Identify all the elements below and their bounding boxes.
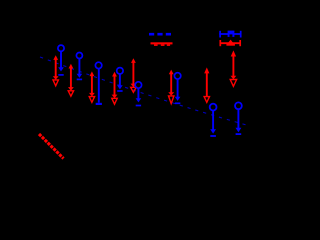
red limit arrow R6 <box>168 70 174 104</box>
blue limit arrow B3 <box>95 62 102 104</box>
legend blue dashed line <box>149 33 171 36</box>
red dotted diagonal curve <box>39 134 64 159</box>
blue data point with horizontal error bar <box>219 31 241 38</box>
red data point with horizontal error bar <box>220 40 242 47</box>
blue limit arrow B6 <box>174 73 180 104</box>
red lower-limit arrow R7 (up) <box>204 67 209 102</box>
red limit arrow R5 <box>131 58 137 92</box>
red limit arrow R8 <box>230 50 236 86</box>
red limit arrow R1 <box>53 55 59 86</box>
red limit arrow R4 <box>112 72 118 104</box>
legend red line <box>151 42 173 46</box>
blue limit arrow B4 <box>117 68 123 91</box>
blue limit arrow B1 <box>58 45 64 75</box>
blue limit arrow B7 <box>210 104 217 136</box>
red limit arrow R3 <box>89 71 95 102</box>
blue limit arrow B8 <box>235 102 242 134</box>
blue limit arrow B2 <box>76 53 82 80</box>
blue limit arrow B5 <box>135 82 141 106</box>
red limit arrow R2 <box>68 64 74 96</box>
blue dashed theory curve <box>40 57 250 126</box>
